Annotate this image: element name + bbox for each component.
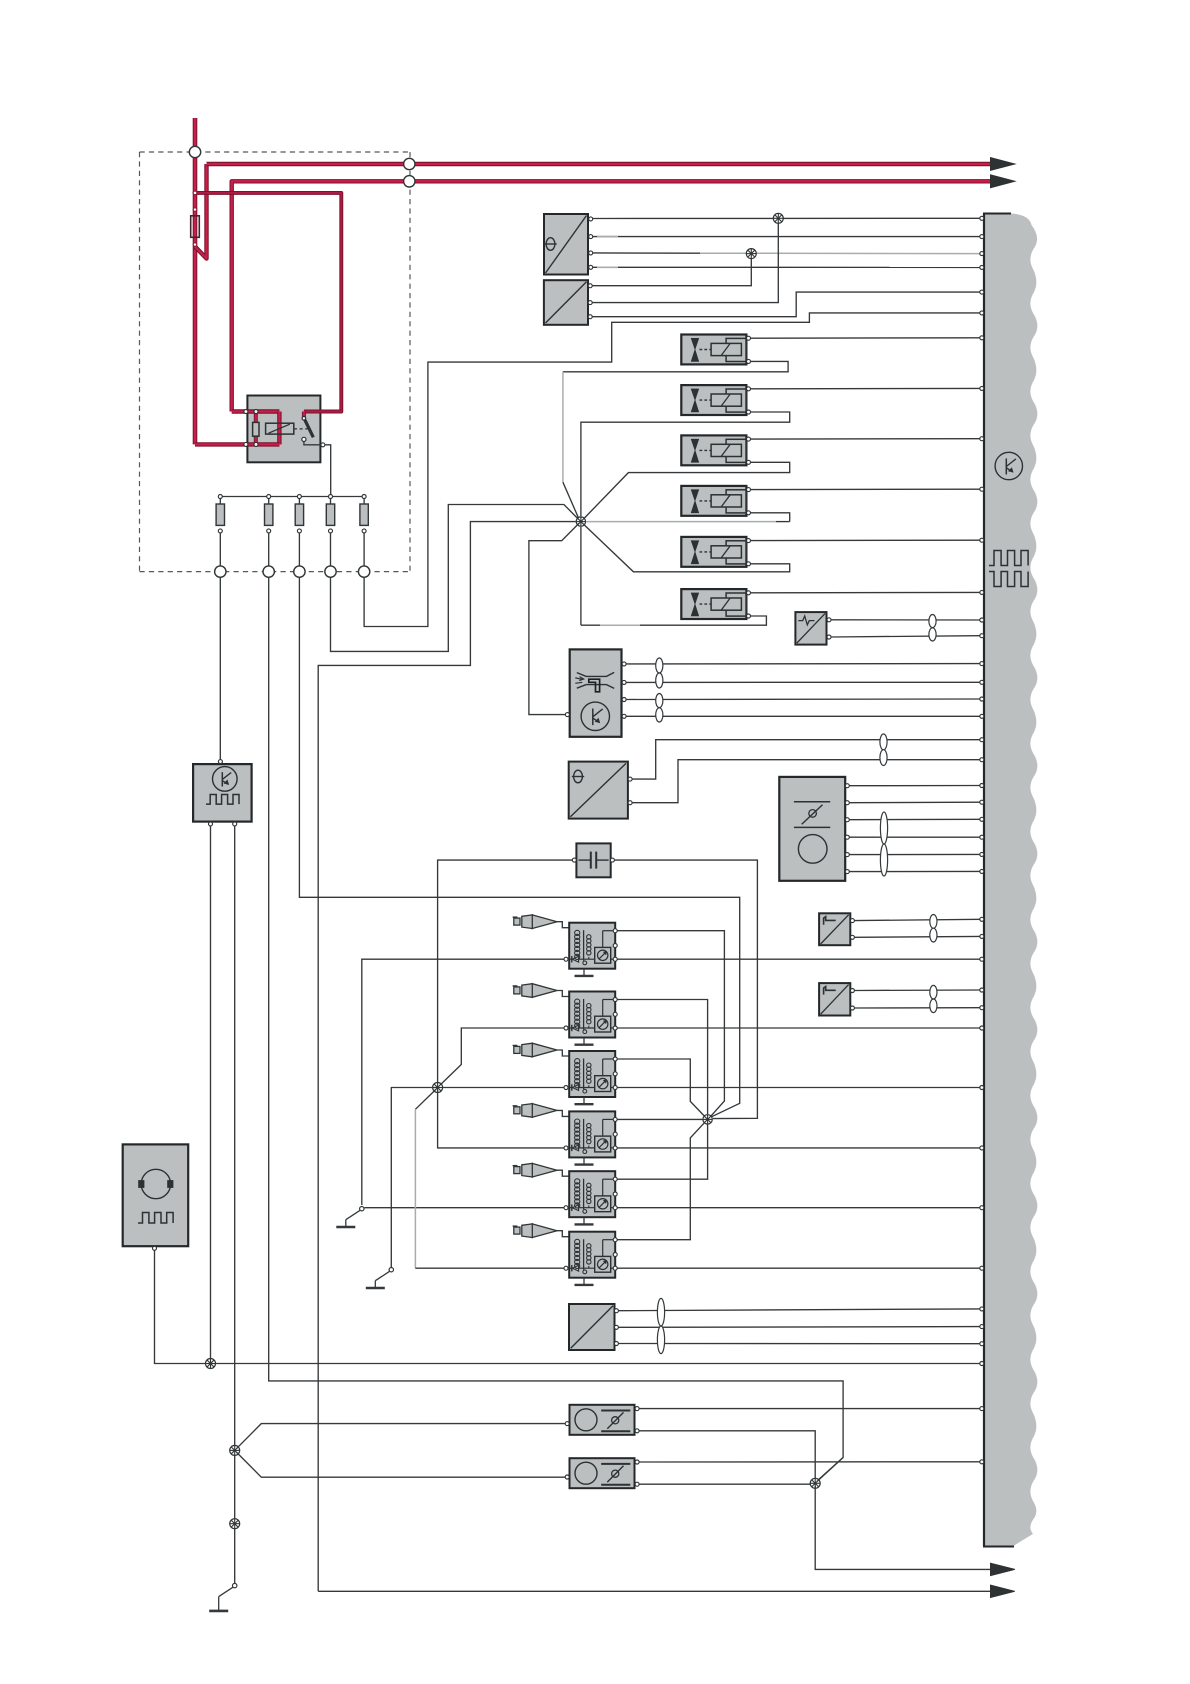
wire: spark plug 6 to coil 6 xyxy=(557,1231,570,1237)
ignition driver stage coil 6 xyxy=(595,1256,611,1272)
ground: coil 2 secondary xyxy=(583,1038,585,1045)
throttle bore symbol xyxy=(577,672,614,676)
wire: B3 signal pair to ECU xyxy=(831,619,980,621)
wire: coil 2 ground to splice xyxy=(440,1028,564,1086)
wire: injector 5 control to ECU xyxy=(751,539,980,541)
arrow: heater supply continues (bottom) xyxy=(991,1563,1015,1575)
wire: splice to coil 4 ground xyxy=(438,1090,564,1148)
pin: B1 terminal 4 xyxy=(589,265,593,269)
wire: relay resistor branch (crimson) xyxy=(254,412,258,424)
relay K1 (main/system relay) xyxy=(247,396,320,463)
throttle flap symbol xyxy=(589,679,600,692)
wire: spark plug 5 to coil 5 xyxy=(557,1170,570,1176)
pin: coil 5 terminals xyxy=(613,1177,617,1181)
spark plug 6 xyxy=(513,1225,518,1227)
junction: splice on sensor ground line xyxy=(230,1519,240,1529)
connector: rail terminal upper xyxy=(404,158,415,169)
wire: coil 5 ground to ground bus G1 xyxy=(364,1207,564,1209)
wire: spark plug 3 to coil 3 xyxy=(557,1050,570,1056)
wire: lambda 1 heater to heater junction xyxy=(639,1431,815,1481)
wire: battery feed (thick crimson vertical) xyxy=(193,118,198,444)
wire: 15-supply rail lower (to arrow) xyxy=(232,181,991,411)
wire: relay contact feed from loop (inside relay) xyxy=(304,410,341,414)
fuse F6 xyxy=(362,495,366,499)
pin: injector 4 terminals xyxy=(747,488,751,492)
sensor B9: heated oxygen (lambda) sensor 2 xyxy=(570,1458,635,1488)
wire: coil 6 output to ECU xyxy=(617,1267,980,1269)
arrow: supply continues (upper right) xyxy=(991,158,1015,171)
wire: fused feed via fuse to 30-feed rail (diagonal + vertical riser) xyxy=(195,164,207,259)
injector valve 4 xyxy=(681,486,746,516)
pin: B6 terminals xyxy=(218,760,222,764)
wire: B1 signal 4 to ECU xyxy=(593,266,980,268)
wire: B6 ground wire down to chassis ground xyxy=(234,826,236,1583)
wire: capacitor right to ignition star point xyxy=(615,860,758,1119)
relay switch contact (crimson stub) xyxy=(302,412,306,418)
pin: S1 terminals xyxy=(850,919,854,923)
wire: coil 1 ground to ground bus G1 xyxy=(362,959,564,1205)
wire: coil 2 output to ECU xyxy=(617,1027,980,1029)
star point: ignition coil supply junction xyxy=(703,1115,712,1124)
sensor B8: heated oxygen (lambda) sensor 1 xyxy=(570,1405,635,1435)
ignition coil 2 xyxy=(569,992,615,1038)
wire: connector C1 down to crankshaft sensor xyxy=(219,577,221,759)
resistor R (relay coil suppression) xyxy=(253,422,259,436)
pin: B3 terminals xyxy=(827,618,831,622)
injector valve 2 xyxy=(681,385,746,415)
wire: heater junction down to output arrow xyxy=(815,1486,990,1570)
pin: pedal sensor terminals xyxy=(845,784,849,788)
wire: spark plug 4 to coil 4 xyxy=(557,1110,570,1116)
wire: speed signal to ECU xyxy=(216,1363,980,1365)
wire: injector 6 supply return to star point xyxy=(640,616,766,625)
junction: coil ground splice xyxy=(433,1083,443,1093)
wire: injector 3 control to ECU xyxy=(751,438,980,440)
sensor B6: crankshaft position sensor xyxy=(193,764,252,822)
connector terminal C1 xyxy=(215,566,226,577)
throttle motor (transistor circle) xyxy=(581,702,609,730)
wire: coil 5 output to ECU xyxy=(617,1207,980,1209)
wire: B2 terminal 3 to ECU xyxy=(592,292,980,317)
fuse F5 xyxy=(329,495,333,499)
ground: coil 6 secondary xyxy=(583,1278,585,1285)
fuse F2 xyxy=(218,495,222,499)
transistor symbol inside ECU xyxy=(995,452,1022,479)
wire: coil 4 output to ECU xyxy=(617,1147,980,1149)
wire: star point to throttle unit motor supply xyxy=(529,523,579,714)
pin: B2 terminal 1 xyxy=(588,284,592,288)
wire: 30-supply rail upper (to arrow, continues to other systems) xyxy=(207,162,991,166)
dashed actuation link xyxy=(294,428,308,430)
relay switch arm xyxy=(302,417,306,421)
wire: throttle signals to ECU xyxy=(626,663,980,665)
pin: coil 6 terminals xyxy=(613,1238,617,1242)
switch S1 (pressure switch) xyxy=(819,913,850,945)
wire: pedal sensor signals to ECU xyxy=(849,785,980,787)
node: feed below fuse F1 xyxy=(193,243,197,247)
arrow: supply continues (lower right) xyxy=(991,175,1015,188)
actuator/sensor unit: electronic throttle module xyxy=(570,649,622,736)
pin: coil 1 terminals xyxy=(613,929,617,933)
spark plug 1 xyxy=(513,916,518,918)
ignition driver stage coil 1 xyxy=(595,947,611,963)
connector terminal C5 xyxy=(358,566,369,577)
wire: splice to lambda probe 1 minus xyxy=(237,1424,565,1449)
wire: S1 contacts to ECU xyxy=(855,919,981,920)
wire: injector 2 supply return to star point xyxy=(581,412,790,516)
wire: main supply continues (bottom line to arrow) xyxy=(318,1590,990,1592)
arrow: main supply continues (bottom) xyxy=(991,1585,1015,1597)
wire: injector 2 control to ECU xyxy=(751,387,980,389)
wire: coil 5 supply via star point drop xyxy=(617,1125,707,1180)
valve Y1: EVAP purge valve (diagonal box) xyxy=(569,1304,615,1350)
square-wave signal symbol inside ECU (row 1) xyxy=(989,551,1028,566)
wire: spark plug 1 to coil 1 xyxy=(557,922,570,928)
wire: injector 6 control to ECU xyxy=(751,591,980,593)
node: feed above fuse F1 xyxy=(193,208,197,212)
wire: B2 terminal 2 joins signal line 1 xyxy=(592,221,778,302)
ground: G3 (sensor ground) xyxy=(219,1587,234,1597)
pin: throttle module terminals xyxy=(622,662,626,666)
connector terminal C2 xyxy=(263,566,274,577)
wire: lambda 2 heater to heater junction xyxy=(639,1483,812,1485)
relay coil K1 xyxy=(266,423,294,434)
twisted pair marker: camshaft sensor wires xyxy=(929,615,936,628)
wire: injector 1 supply return to star point xyxy=(563,361,788,371)
pin: B1 terminal 3 xyxy=(589,251,593,255)
ignition coil 4 xyxy=(569,1111,615,1157)
twisted pair marker: air temp sensor wires xyxy=(880,734,887,750)
wire: B1 signal 2 to ECU xyxy=(593,236,980,238)
wire: splice to ground bus G2 xyxy=(391,1088,435,1268)
ignition driver stage coil 5 xyxy=(595,1196,611,1212)
spark plug 4 xyxy=(513,1105,518,1107)
wire: coil 4 supply to ignition star point xyxy=(617,1118,702,1120)
wire: heater junction riser to C2 feed xyxy=(817,1458,843,1482)
pin: B4 terminals xyxy=(628,777,632,781)
wire: relay output to fuse bus xyxy=(325,445,331,495)
ECU control module A (torn-edge connector bar) xyxy=(984,214,1037,1547)
wire: B2 terminal 1 joins grey signal line xyxy=(592,257,751,286)
pin: B1 terminal 2 xyxy=(589,235,593,239)
fuse F4 xyxy=(297,495,301,499)
ignition coil 3 xyxy=(569,1051,615,1097)
wire: coil 2 supply to ignition star point xyxy=(617,1000,707,1115)
pin: B7 terminal xyxy=(153,1246,157,1250)
pin: injector 5 terminals xyxy=(747,539,751,543)
wire: capacitor left to coil ground network xyxy=(438,860,573,1084)
wire: relay coil feed (crimson U inside relay) xyxy=(232,409,280,413)
sensor B7: vehicle speed sensor (motor symbol) xyxy=(123,1144,189,1246)
injector valve 1 xyxy=(681,335,746,365)
ignition driver stage coil 4 xyxy=(595,1136,611,1152)
junction: speed signal splice xyxy=(206,1359,216,1369)
wire: connector C2 feed to lambda heater junction xyxy=(269,577,843,1481)
wire: relay contact return loop (dark red) xyxy=(195,193,341,412)
sensor B4: intake air temperature (theta box) xyxy=(569,762,628,819)
wire: injector 3 supply return to star point xyxy=(583,462,790,519)
fuse F1 (main) xyxy=(191,216,200,238)
sensor B2: pressure/temperature sender (diagonal box) xyxy=(544,280,588,325)
pin: B1 terminal 1 xyxy=(589,217,593,221)
switch S2 (pressure switch) xyxy=(819,983,850,1015)
square-wave signal symbol inside ECU (row 2) xyxy=(989,572,1028,587)
dashed boundary box (power distribution unit) xyxy=(140,151,411,153)
wire: coil 3 output to ECU xyxy=(617,1087,980,1089)
connector: rail terminal lower xyxy=(404,176,415,187)
pin: relay terminals xyxy=(244,410,248,414)
spark plug 2 xyxy=(513,985,518,987)
ground: coil 3 secondary xyxy=(583,1097,585,1104)
wire: Y1 control wires to ECU xyxy=(619,1309,981,1311)
wire: injector 4 control to ECU xyxy=(751,488,980,490)
wire: B1 signal 3 to ECU (grey) xyxy=(593,252,700,254)
twisted pair marker: Y1 wires xyxy=(657,1298,664,1326)
twisted pair marker: pedal sensor signal wires xyxy=(880,812,887,844)
wire: injector 1 control to ECU xyxy=(751,337,980,339)
twisted pair marker: throttle wires 1-2 xyxy=(656,658,663,673)
pin: B2 terminal 2 xyxy=(588,301,592,305)
pin: injector 1 terminals xyxy=(747,336,751,340)
pin: B2 terminal 3 xyxy=(588,315,592,319)
junction: splice on signal line 1 xyxy=(773,213,783,223)
ground: coil 4 secondary xyxy=(583,1157,585,1164)
wire: B7 output to junction xyxy=(155,1250,206,1363)
wire: fused output bus from relay xyxy=(220,496,364,498)
wire: spark plug 2 to coil 2 xyxy=(557,991,570,997)
pin: Y1 terminals xyxy=(614,1309,618,1313)
connector terminal C4 xyxy=(325,566,336,577)
connector terminal C3 xyxy=(294,566,305,577)
pin: injector 2 terminals xyxy=(747,387,751,391)
pin: capacitor terminals xyxy=(572,858,576,862)
wire: coil 1 supply to ignition star point xyxy=(617,931,724,1118)
ignition coil 1 xyxy=(569,923,615,969)
ignition driver stage coil 3 xyxy=(595,1076,611,1092)
injector valve 5 xyxy=(681,537,746,567)
pin: coil 2 terminals xyxy=(613,998,617,1002)
ignition driver stage coil 2 xyxy=(595,1016,611,1032)
sensor B5: accelerator pedal position sensor xyxy=(779,777,845,881)
pin: injector 3 terminals xyxy=(747,437,751,441)
wire: connector C4 feed to injector star point xyxy=(331,505,580,652)
twisted pair marker: S2 wires xyxy=(930,985,937,999)
pin: S2 terminals xyxy=(850,989,854,993)
pin: lambda sensor 2 terminals xyxy=(565,1475,569,1479)
wire: B1 signal 1 to ECU xyxy=(593,217,980,219)
wire: coil 3 ground to splice xyxy=(440,1087,564,1089)
pins: ECU connector terminals xyxy=(980,216,984,220)
wire: star point to main supply drop (to bottom arrow) xyxy=(318,522,576,1592)
pin: injector 6 terminals xyxy=(747,591,751,595)
wire: splice to coil 6 ground xyxy=(415,1090,435,1110)
wire: B4 signal 1 to ECU xyxy=(632,740,980,779)
wire: S2 contacts to ECU xyxy=(855,989,981,992)
junction: splice on grey signal line xyxy=(746,249,756,259)
pin: lambda sensor 1 terminals xyxy=(565,1422,569,1426)
relay common pivot xyxy=(302,437,306,441)
wire: lambda 2 signal to ECU xyxy=(639,1461,980,1463)
wire: coil 1 output to ECU xyxy=(617,958,980,960)
spark plug 3 xyxy=(513,1044,518,1046)
ground: G1 (engine ground) xyxy=(346,1210,361,1220)
wire: injector 5 supply return to star point xyxy=(583,524,790,572)
wire: coil 3 supply to ignition star point xyxy=(617,1059,705,1117)
wire: B4 signal 2 to ECU xyxy=(632,760,980,803)
sensor B1: engine coolant temperature (theta box) xyxy=(544,214,588,275)
injector valve 6 xyxy=(681,589,746,619)
injector valve 3 xyxy=(681,435,746,465)
spark plug 5 xyxy=(513,1165,518,1167)
fuse F3 xyxy=(267,495,271,499)
ground: coil 1 secondary xyxy=(583,969,585,976)
ignition coil 5 xyxy=(569,1171,615,1217)
wire: injector 4 supply return to star point xyxy=(751,513,790,522)
wire: connector C3 feed to ignition star point xyxy=(299,577,739,1117)
connector: battery feed through-terminal xyxy=(189,146,200,157)
twisted pair marker: throttle wires 3-4 xyxy=(656,694,663,708)
wire: B6 output down to speed signal junction xyxy=(210,826,212,1360)
junction: lambda heater supply splice xyxy=(810,1478,820,1488)
wire: lambda 1 signal to ECU xyxy=(639,1408,980,1410)
twisted pair marker: S1 wires xyxy=(930,915,937,929)
ground: coil 5 secondary xyxy=(583,1217,585,1224)
wire: splice to lambda probe 2 minus xyxy=(237,1453,565,1478)
sensor B3: camshaft position sensor xyxy=(795,612,826,645)
ignition coil 6 xyxy=(569,1232,615,1278)
wire: coil 6 supply via star point diagonal drop xyxy=(617,1121,705,1239)
wire: connector C5 feed to ECU (system voltage sense) xyxy=(364,313,980,627)
capacitor C1 (interference suppressor) xyxy=(576,843,610,877)
pin: coil 4 terminals xyxy=(613,1117,617,1121)
node: junction on battery feed at relay loop xyxy=(193,191,197,195)
junction: sensor ground splice (lambda sensors) xyxy=(230,1445,240,1455)
pin: coil 3 terminals xyxy=(613,1057,617,1061)
ground: G2 (engine ground) xyxy=(375,1271,390,1281)
star point: injector supply junction xyxy=(576,517,585,526)
